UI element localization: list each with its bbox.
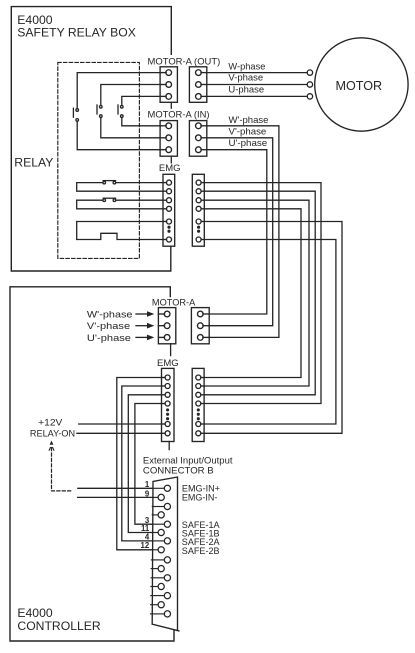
svg-text:12: 12 [141, 541, 150, 550]
wire S1 bottom to MOTOR-A IN pin3 [77, 121, 160, 149]
svg-text:MOTOR: MOTOR [336, 79, 383, 93]
svg-text:1: 1 [145, 480, 150, 489]
svg-text:V-phase: V-phase [228, 73, 263, 83]
wire S2 bottom to MOTOR-A IN pin2 [101, 118, 160, 138]
label E4000 SAFETY RELAY BOX [17, 13, 136, 40]
svg-text:U'-phase: U'-phase [229, 138, 268, 148]
wire S2 top to MOTOR-A OUT pin2 [101, 85, 160, 106]
wire U'-phase down to controller [207, 150, 267, 314]
svg-text:EMG: EMG [157, 358, 179, 369]
dashed feedback arrow to RELAY-ON [49, 441, 72, 491]
label E4000 CONTROLLER [17, 606, 100, 633]
wire S3 bottom to MOTOR-A IN pin1 [122, 118, 160, 126]
wire EMG-IN+ [78, 487, 153, 489]
svg-text:CONNECTOR B: CONNECTOR B [143, 466, 214, 477]
relay contact S1 [73, 108, 78, 121]
wire controller EMG pin3 to SAFE-1B [128, 395, 161, 533]
wire W'-phase down to controller [207, 126, 279, 338]
connector EMG right strip (relay box) [192, 174, 204, 246]
wire V-phase to motor [207, 84, 307, 86]
connector MOTOR-A (OUT) right block [189, 67, 206, 103]
wire RELAY-ON to controller EMG pin6 [77, 432, 162, 434]
wire EMG6 loop to controller EMG pin5 [204, 240, 336, 425]
wire +12V to controller EMG pin5 [79, 423, 162, 425]
wire controller EMG pin4 to SAFE-1A [135, 404, 162, 525]
connector MOTOR-A (OUT) left block [160, 67, 177, 103]
relay contact S2 [97, 105, 102, 117]
svg-text:V'-phase: V'-phase [229, 127, 267, 137]
relay contact bar K2 (EMG pins 3-4) [77, 198, 163, 209]
wire S3 top to MOTOR-A OUT pin3 [122, 96, 160, 105]
svg-text:+12V: +12V [38, 418, 63, 428]
svg-text:W'-phase: W'-phase [87, 310, 133, 320]
relay contact bar K1 (EMG pins 1-2) [77, 181, 163, 192]
motor terminal circles [307, 70, 312, 99]
wire EMG4 loop to controller EMG pin1 [204, 209, 301, 378]
arrow U' [136, 335, 154, 341]
svg-text:W-phase: W-phase [228, 61, 265, 71]
relay dashed enclosure [58, 62, 140, 258]
arrow V' [136, 323, 154, 329]
wire V'-phase down to controller [207, 138, 273, 326]
svg-text:MOTOR-A (OUT): MOTOR-A (OUT) [148, 57, 221, 68]
svg-text:W'-phase: W'-phase [229, 115, 269, 125]
svg-text:U'-phase: U'-phase [87, 333, 131, 343]
connector EMG left strip (controller) [162, 368, 175, 441]
safety relay box outline [11, 7, 171, 271]
relay contact S3 [118, 105, 123, 117]
stub OUT block to IN label [170, 102, 172, 108]
wire controller EMG pin2 to SAFE-2A [122, 386, 162, 541]
stub IN block to EMG label [170, 156, 172, 163]
connector B pins [151, 485, 171, 617]
label External Input/Output CONNECTOR B [143, 455, 233, 476]
wire EMG1 loop to controller EMG pin4 [204, 183, 321, 404]
arrow W' [136, 311, 154, 317]
connector MOTOR-A (IN) right block [189, 121, 206, 157]
relay coil K3 (EMG pins 5-6) [77, 222, 163, 240]
svg-text:SAFETY RELAY BOX: SAFETY RELAY BOX [17, 25, 136, 39]
connector EMG left strip (relay box) [163, 174, 175, 246]
connector MOTOR-A right block (controller) [191, 308, 209, 344]
wire EMG2 loop to controller EMG pin3 [204, 191, 315, 395]
svg-text:EMG: EMG [159, 163, 181, 174]
svg-text:9: 9 [145, 489, 150, 498]
wire EMG5 loop to controller EMG pin6 [204, 222, 342, 434]
controller box outline [10, 287, 174, 641]
wire U-phase to motor [207, 95, 307, 97]
connector EMG right strip (controller) [192, 368, 204, 441]
stub controller EMG to connector B label [168, 442, 170, 450]
connector MOTOR-A left block (controller) [158, 308, 175, 344]
svg-text:MOTOR-A (IN): MOTOR-A (IN) [148, 110, 210, 121]
wire W-phase to motor [207, 72, 307, 74]
stub controller MOTOR-A to EMG label [170, 344, 172, 356]
svg-text:SAFE-2B: SAFE-2B [182, 546, 220, 557]
wire EMG3 loop to controller EMG pin2 [204, 200, 309, 386]
svg-text:CONTROLLER: CONTROLLER [17, 619, 100, 633]
svg-text:RELAY: RELAY [14, 156, 53, 170]
wire controller EMG pin1 to SAFE-2B [117, 378, 162, 550]
connector B outline [152, 477, 179, 631]
wire EMG-IN- [78, 496, 153, 498]
svg-text:EMG-IN-: EMG-IN- [182, 493, 218, 504]
connector MOTOR-A (IN) left block [160, 121, 177, 157]
svg-text:U-phase: U-phase [228, 84, 264, 94]
motor M [315, 38, 408, 131]
svg-text:V'-phase: V'-phase [87, 321, 130, 331]
wire S1 top to MOTOR-A OUT pin1 [77, 73, 160, 109]
svg-text:RELAY-ON: RELAY-ON [30, 428, 75, 438]
